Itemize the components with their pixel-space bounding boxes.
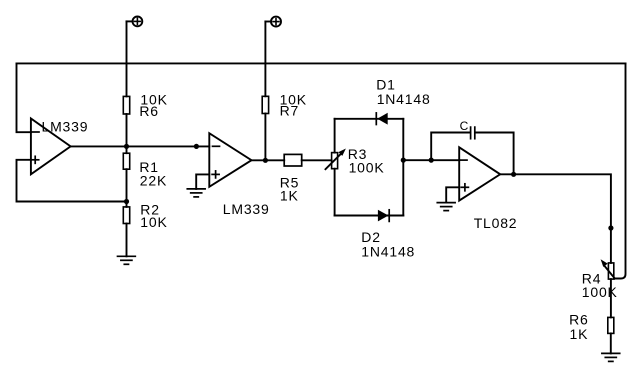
ground below R6b: [602, 353, 620, 361]
node junction R7/U2 output: [263, 158, 268, 163]
wire loop bottom: [335, 215, 404, 217]
wire U3 plus to ground: [446, 187, 459, 202]
svg-text:1K: 1K: [280, 187, 299, 203]
wire capacitor to output node: [476, 133, 514, 175]
wire U2 plus input to ground: [196, 174, 209, 189]
diode D1: [376, 113, 387, 125]
diode loop left vertical with R3: [334, 119, 336, 153]
svg-text:R7: R7: [280, 103, 300, 119]
resistor R1: [123, 153, 129, 169]
op-amp U3 TL082: [459, 147, 500, 200]
wire U1 inverting input from top rail: [17, 63, 31, 132]
svg-text:1K: 1K: [570, 326, 589, 342]
wire R6 to output node: [126, 114, 128, 153]
resistor R7: [262, 96, 268, 113]
ground at U3 plus input: [437, 203, 455, 211]
svg-text:22K: 22K: [140, 172, 167, 188]
svg-text:LM339: LM339: [223, 201, 270, 217]
R3 wiper arrow: [326, 149, 346, 170]
svg-text:C: C: [460, 119, 469, 133]
power V+ symbol 1: [127, 17, 143, 27]
svg-text:R6: R6: [139, 103, 159, 119]
svg-text:100K: 100K: [582, 284, 618, 300]
resistor R6: [123, 96, 129, 114]
U2 minus pin mark: [213, 145, 220, 147]
wire R7 to U2 output node: [264, 114, 266, 161]
wire R6b to ground: [610, 333, 612, 353]
ground below R2: [118, 256, 136, 264]
svg-text:1N4148: 1N4148: [361, 244, 415, 260]
wire V+ rail2 down to R7: [264, 22, 266, 97]
diode D2: [378, 210, 389, 222]
wire U1 output to U2 inverting input: [71, 145, 210, 147]
wire right border down to R4 wiper: [615, 63, 626, 278]
wire loop top: [335, 118, 404, 120]
resistor R5: [284, 154, 302, 166]
U1 minus pin mark: [32, 131, 39, 133]
U3 minus pin mark: [460, 159, 467, 161]
svg-text:100K: 100K: [349, 160, 385, 176]
R4 wiper arrow: [601, 259, 615, 278]
potentiometer R4: [608, 263, 613, 279]
wire V+ rail1 down to R6: [126, 21, 128, 96]
U2 plus pin mark: [212, 171, 219, 178]
wire loop to U3 inverting input: [403, 159, 459, 161]
wire top feedback rail: [17, 62, 626, 64]
wire R2 to ground: [126, 224, 128, 257]
node junction R1/R2: [124, 199, 129, 204]
wire feedback up from input node: [431, 133, 470, 161]
svg-text:1N4148: 1N4148: [377, 91, 431, 107]
potentiometer R3: [332, 153, 338, 169]
op-amp U1 LM339: [31, 119, 71, 175]
node junction output line: [608, 225, 613, 230]
wire R1 to R2: [126, 169, 128, 207]
wire R4 to R6b: [610, 279, 612, 317]
wire U2 output to R5: [252, 159, 285, 161]
node junction U3 output/feedback: [511, 172, 516, 177]
resistor R2: [123, 207, 129, 224]
wire U1 non-inverting input to R1/R2 junction: [17, 160, 127, 202]
ground at U2 plus input: [187, 189, 205, 197]
node junction loop right/U3 input: [401, 158, 406, 163]
wire R5 to R3: [302, 159, 332, 161]
U3 plus pin mark: [461, 184, 468, 191]
wire U3 output to right side: [500, 174, 611, 263]
resistor R6 bottom: [608, 317, 614, 333]
U1 plus pin mark: [32, 156, 39, 163]
svg-text:LM339: LM339: [42, 119, 89, 135]
wire R3 to bottom loop wire: [334, 169, 336, 216]
capacitor C: [471, 127, 475, 139]
wire loop right vertical: [402, 119, 404, 216]
svg-text:TL082: TL082: [474, 215, 518, 231]
node junction R6/R1/U1out: [124, 144, 129, 149]
power V+ symbol 2: [265, 17, 281, 27]
op-amp U2 LM339: [209, 133, 251, 187]
node junction feedback tap: [429, 158, 434, 163]
svg-text:10K: 10K: [140, 214, 167, 230]
node junction U2 minus input: [194, 144, 199, 149]
